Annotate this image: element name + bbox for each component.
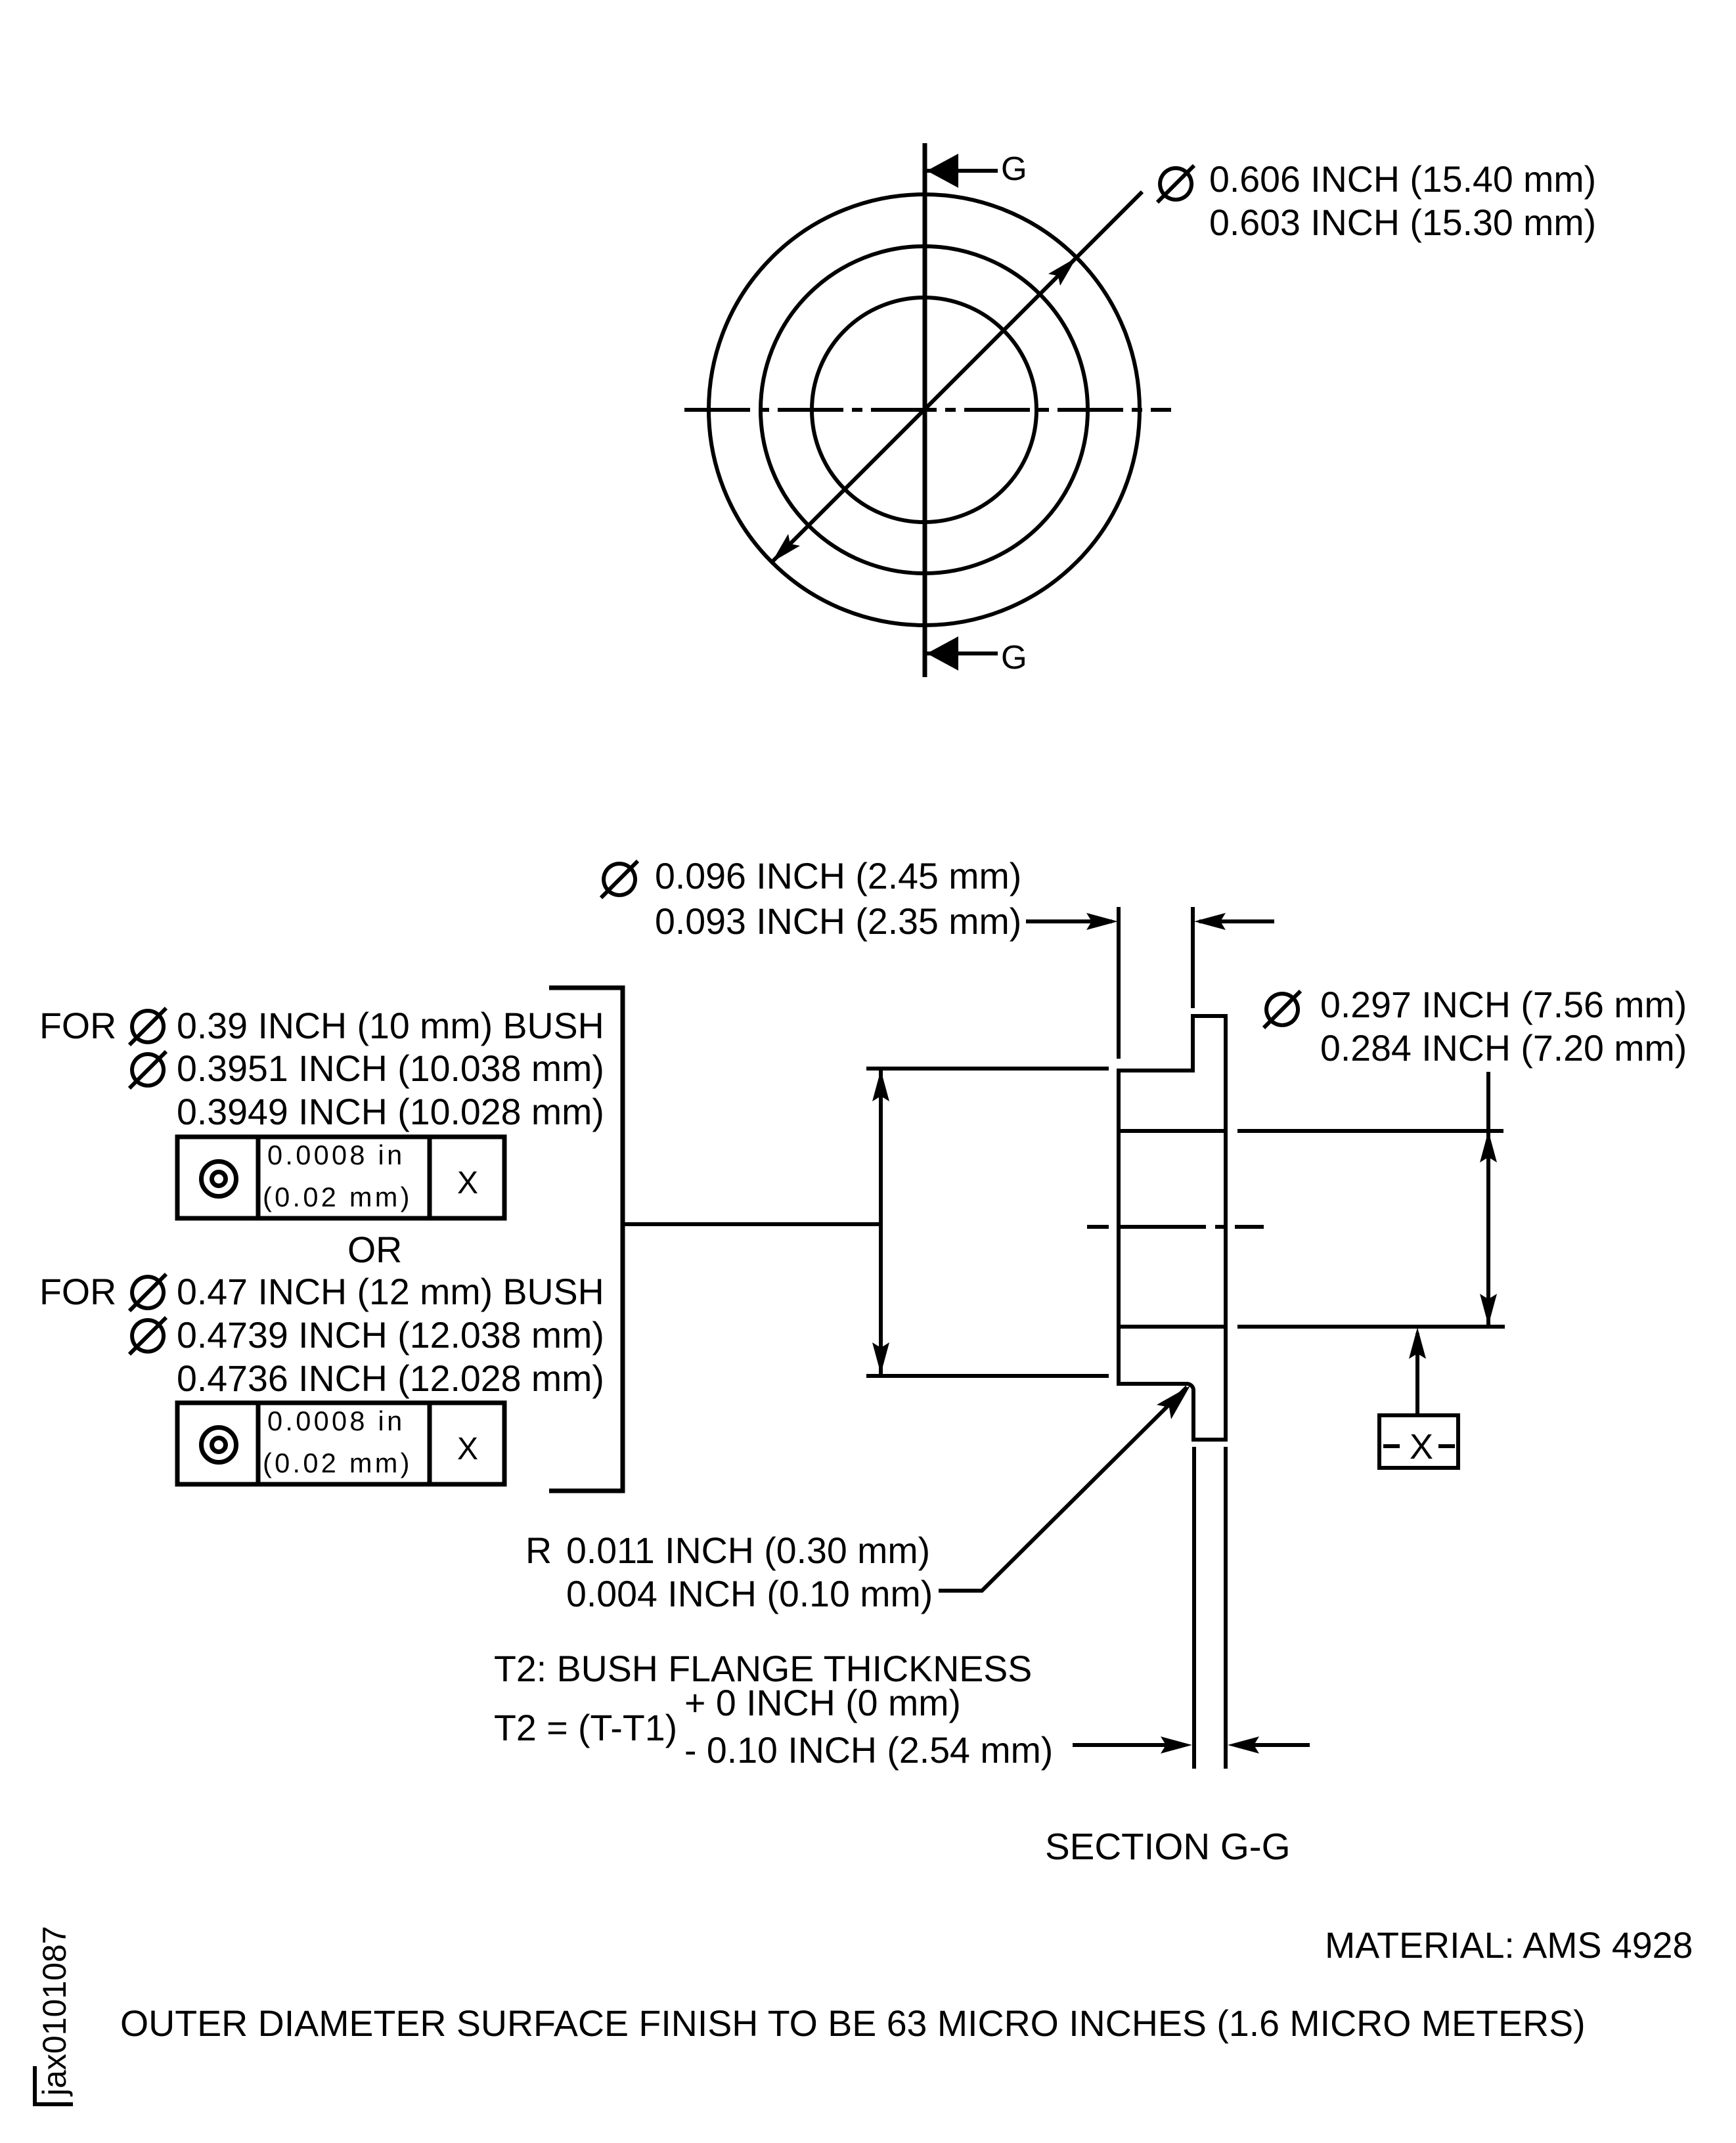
right dim arrowhead bottom (down): [1480, 1294, 1497, 1325]
svg-text:0.0008 in: 0.0008 in: [267, 1405, 405, 1436]
circular view: outer circle (flange OD): [709, 194, 1140, 625]
svg-text:G: G: [1001, 150, 1027, 187]
diameter symbol bush line 1: [129, 1008, 166, 1045]
right diameter dimension line: [1486, 1072, 1490, 1325]
bottom G arrowhead: [927, 636, 958, 671]
svg-text:X: X: [1410, 1427, 1433, 1467]
svg-text:0.011 INCH (0.30 mm): 0.011 INCH (0.30 mm): [566, 1530, 930, 1571]
wall thickness dim leader left: [1026, 919, 1112, 923]
extension line for wall dim (right, x=1816): [1191, 907, 1195, 1008]
diagonal diameter dimension line: [772, 192, 1142, 562]
bottom dim arrowhead left (points right): [1161, 1736, 1192, 1754]
top G arrow shaft: [927, 169, 998, 173]
svg-text:FOR: FOR: [39, 1005, 116, 1046]
svg-text:0.606 INCH (15.40 mm): 0.606 INCH (15.40 mm): [1209, 159, 1596, 200]
datum X box right dash: [1438, 1444, 1455, 1448]
FCF2 frame: [177, 1403, 504, 1484]
big left dim arrowhead bottom (down): [872, 1342, 889, 1374]
svg-text:+ 0 INCH (0 mm): + 0 INCH (0 mm): [684, 1683, 961, 1723]
section view: bush outline (flange + barrel + fillet): [1119, 1016, 1226, 1440]
bottom G arrow shaft: [927, 652, 998, 655]
svg-text:0.3949 INCH (10.028 mm): 0.3949 INCH (10.028 mm): [177, 1092, 604, 1132]
corner label bracket: [35, 2066, 73, 2104]
svg-text:SECTION G-G: SECTION G-G: [1045, 1826, 1291, 1867]
section view: barrel OD line through flange (lower): [1119, 1325, 1226, 1329]
svg-text:0.39 INCH (10 mm) BUSH: 0.39 INCH (10 mm) BUSH: [177, 1005, 604, 1046]
big left dim arrowhead top (up): [872, 1070, 889, 1101]
svg-text:OR: OR: [347, 1229, 402, 1270]
FCF2 concentricity symbol: [202, 1428, 236, 1463]
svg-text:0.0008 in: 0.0008 in: [267, 1139, 405, 1170]
section view: barrel OD line through flange (upper): [1119, 1129, 1226, 1133]
svg-text:0.4736 INCH (12.028 mm): 0.4736 INCH (12.028 mm): [177, 1358, 604, 1399]
diameter symbol bush line 4: [129, 1274, 166, 1311]
svg-text:0.47 INCH (12 mm) BUSH: 0.47 INCH (12 mm) BUSH: [177, 1271, 604, 1312]
horizontal centerline (dash-dot) of circular view: [684, 408, 1171, 412]
extension line below flange right (x=1866): [1224, 1447, 1228, 1769]
datum X box: [1379, 1415, 1458, 1468]
extension line right-bottom (y=2020): [1237, 1325, 1505, 1329]
svg-text:0.603 INCH (15.30 mm): 0.603 INCH (15.30 mm): [1209, 202, 1596, 243]
diameter symbol for 0.606 dim: [1157, 166, 1194, 202]
svg-text:G: G: [1001, 638, 1027, 676]
svg-text:0.004 INCH (0.10 mm): 0.004 INCH (0.10 mm): [566, 1574, 933, 1614]
wall dim arrowhead left (points right): [1086, 913, 1118, 930]
bottom dim arrowhead right (points left): [1228, 1736, 1259, 1754]
connector line from bracket to dimension: [623, 1222, 881, 1226]
datum X arrowhead (up): [1409, 1327, 1426, 1359]
bracket (right square bracket): [549, 988, 623, 1491]
extension line below flange left (x=1818): [1192, 1447, 1196, 1769]
svg-text:X: X: [457, 1432, 478, 1467]
top G arrowhead: [927, 154, 958, 188]
extension line right-top (y=1722): [1237, 1129, 1503, 1133]
datum X box left dash: [1383, 1444, 1400, 1448]
svg-text:R: R: [525, 1530, 552, 1571]
diagonal dim arrowhead lower-left: [772, 534, 800, 562]
svg-text:0.093 INCH (2.35 mm): 0.093 INCH (2.35 mm): [655, 901, 1021, 942]
svg-text:X: X: [457, 1166, 478, 1201]
diameter symbol for 0.096 dim: [601, 861, 638, 898]
extension line left-top (y=1627): [866, 1067, 1109, 1071]
wall dim arrowhead right (points left): [1194, 913, 1226, 930]
datum X leader arrow line: [1415, 1333, 1419, 1415]
FCF1 frame: [177, 1137, 504, 1218]
svg-text:0.096 INCH (2.45 mm): 0.096 INCH (2.45 mm): [655, 856, 1021, 896]
svg-text:(0.02 mm): (0.02 mm): [263, 1182, 412, 1212]
diagonal dim arrowhead upper-right: [1048, 257, 1077, 286]
extension line left-bottom (y=2095): [866, 1374, 1109, 1378]
svg-text:OUTER DIAMETER SURFACE FINISH: OUTER DIAMETER SURFACE FINISH TO BE 63 M…: [120, 2003, 1586, 2044]
svg-text:0.4739 INCH (12.038 mm): 0.4739 INCH (12.038 mm): [177, 1315, 604, 1356]
svg-text:jax0101087: jax0101087: [36, 1926, 73, 2097]
circular view: inner circle (bore): [812, 298, 1036, 522]
diameter symbol bush line 2: [129, 1051, 166, 1088]
svg-text:T2 = (T-T1): T2 = (T-T1): [494, 1708, 677, 1748]
wall thickness dim leader right: [1199, 919, 1274, 923]
big left vertical dimension line: [879, 1070, 883, 1374]
fillet leader arrowhead (up-right 45deg): [1157, 1386, 1190, 1419]
svg-text:0.297 INCH (7.56 mm): 0.297 INCH (7.56 mm): [1320, 984, 1687, 1025]
svg-text:0.284 INCH (7.20 mm): 0.284 INCH (7.20 mm): [1320, 1028, 1687, 1069]
diameter symbol bush line 5: [129, 1317, 166, 1354]
svg-text:FOR: FOR: [39, 1271, 116, 1312]
FCF1 concentricity symbol: [202, 1162, 236, 1197]
circular view: middle circle (barrel OD): [761, 246, 1088, 573]
section cutting line G-G (vertical): [923, 143, 927, 677]
svg-text:(0.02 mm): (0.02 mm): [263, 1447, 412, 1478]
diameter symbol for 0.297 dim: [1264, 991, 1301, 1028]
right dim arrowhead top (up): [1480, 1131, 1497, 1162]
extension line for wall dim (left, x=1703): [1117, 907, 1121, 1059]
bottom thickness dim leader right: [1253, 1743, 1310, 1747]
section view centerline (dash-dot): [1087, 1225, 1264, 1229]
svg-text:0.3951 INCH (10.038 mm): 0.3951 INCH (10.038 mm): [177, 1048, 604, 1089]
svg-text:MATERIAL: AMS 4928: MATERIAL: AMS 4928: [1325, 1925, 1693, 1966]
fillet radius leader line: [939, 1387, 1187, 1591]
bottom thickness dim leader left: [1073, 1743, 1168, 1747]
svg-text:- 0.10 INCH (2.54 mm): - 0.10 INCH (2.54 mm): [684, 1730, 1053, 1771]
